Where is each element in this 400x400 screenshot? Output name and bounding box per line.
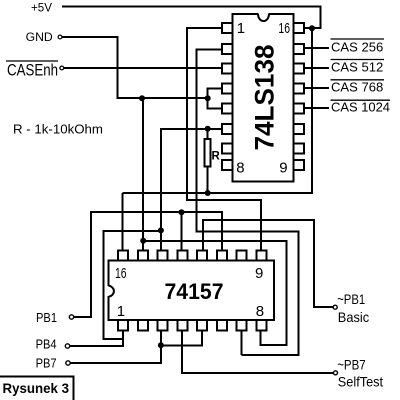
- svg-text:GND: GND: [26, 30, 53, 44]
- svg-text:74LS138: 74LS138: [250, 45, 280, 151]
- svg-text:CAS 1024: CAS 1024: [331, 100, 390, 115]
- svg-text:CAS 256: CAS 256: [331, 40, 383, 55]
- svg-text:SelfTest: SelfTest: [338, 374, 383, 390]
- svg-text:9: 9: [255, 265, 263, 282]
- svg-text:CAS 512: CAS 512: [331, 60, 383, 75]
- svg-text:74157: 74157: [165, 279, 224, 304]
- svg-text:+5V: +5V: [31, 3, 52, 15]
- svg-text:Rysunek 3: Rysunek 3: [3, 380, 70, 396]
- svg-text:PB4: PB4: [36, 337, 57, 352]
- svg-text:PB7: PB7: [36, 355, 57, 370]
- svg-text:~PB7: ~PB7: [337, 357, 366, 373]
- svg-text:1: 1: [117, 303, 125, 320]
- svg-text:~PB1: ~PB1: [337, 291, 365, 307]
- svg-text:R - 1k-10kOhm: R - 1k-10kOhm: [13, 122, 103, 137]
- svg-text:8: 8: [236, 160, 244, 177]
- svg-text:R: R: [212, 151, 221, 163]
- svg-text:8: 8: [256, 303, 264, 320]
- svg-text:CASEnh: CASEnh: [7, 62, 58, 80]
- svg-text:Basic: Basic: [338, 309, 369, 325]
- svg-text:16: 16: [115, 265, 127, 282]
- svg-text:16: 16: [278, 20, 290, 37]
- svg-text:CAS 768: CAS 768: [331, 80, 383, 95]
- svg-text:PB1: PB1: [36, 310, 57, 325]
- svg-text:1: 1: [237, 20, 245, 37]
- svg-text:9: 9: [279, 160, 287, 177]
